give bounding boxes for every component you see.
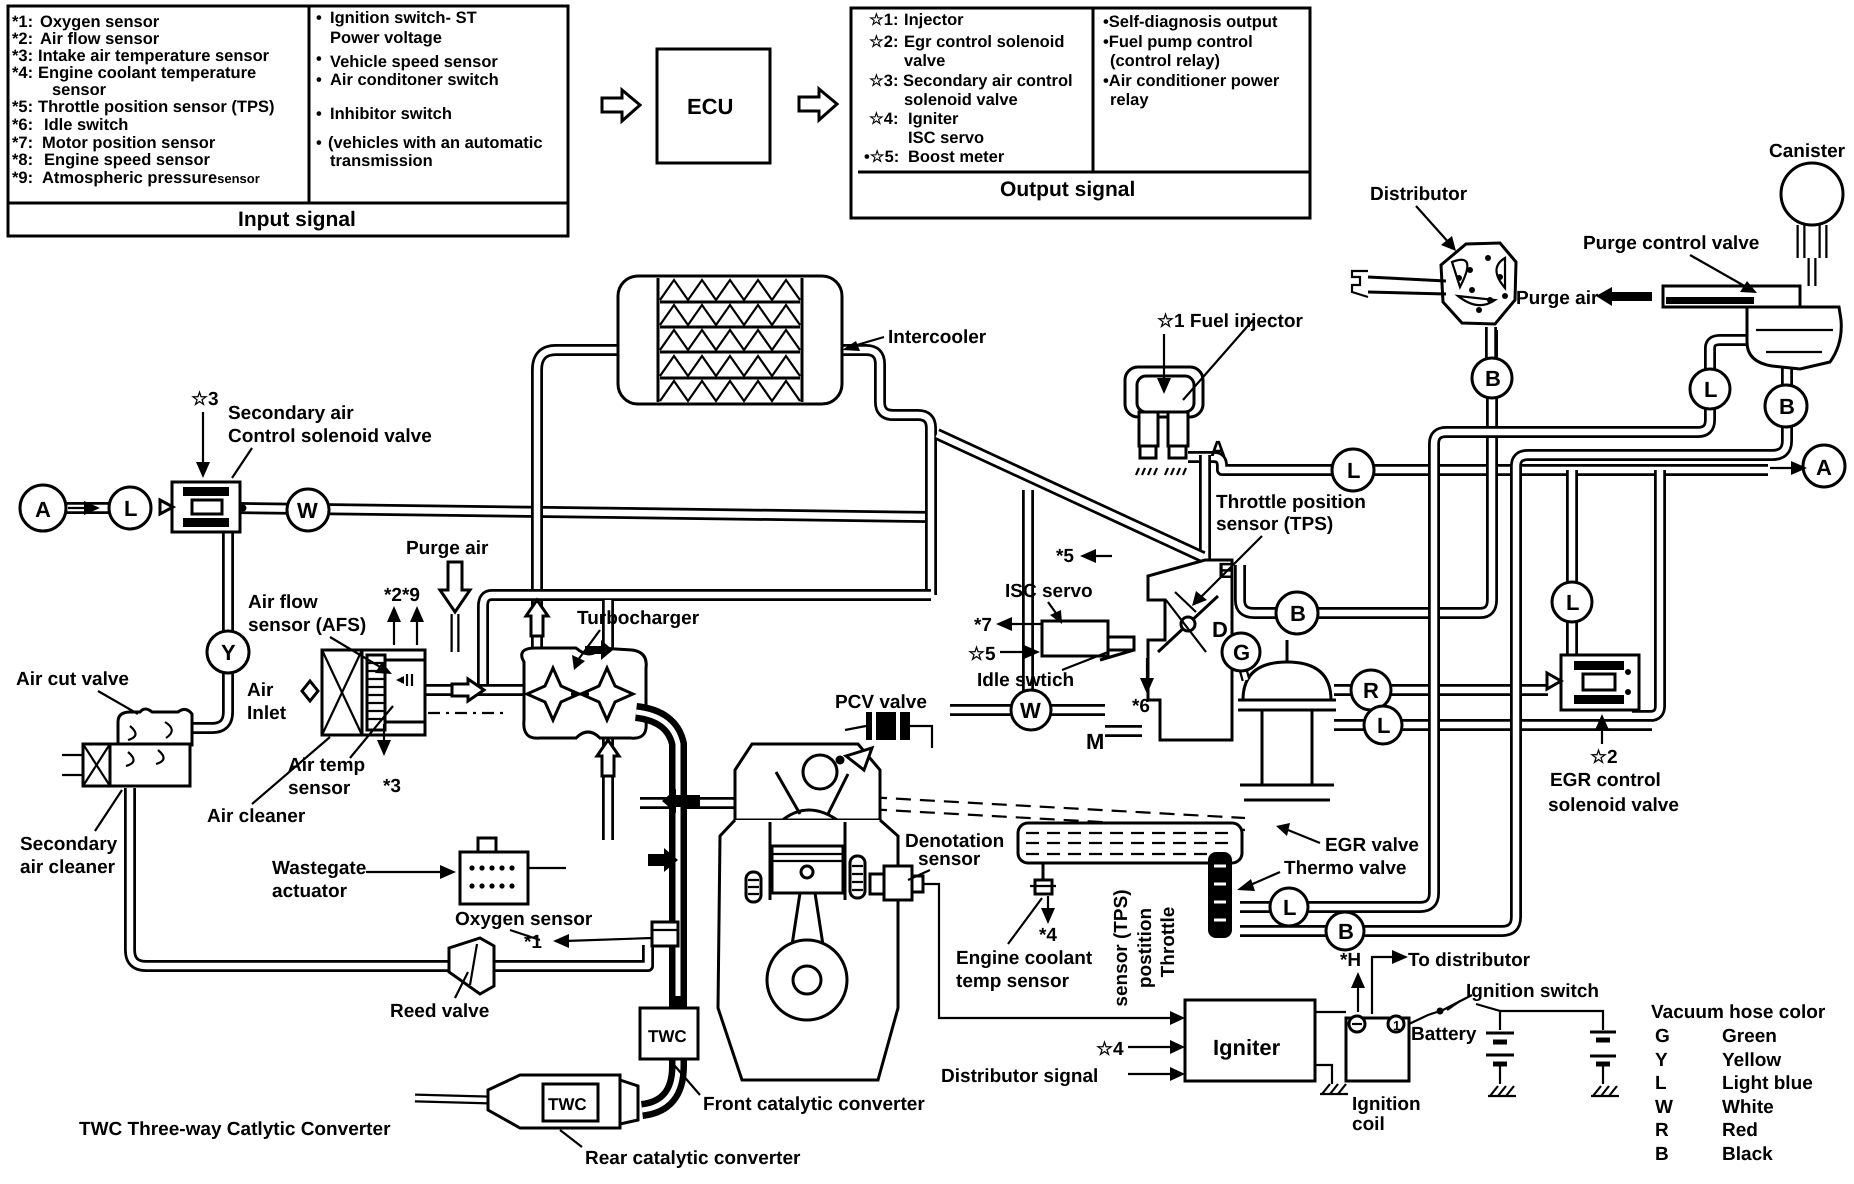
- block arrow out of ECU: [799, 89, 837, 120]
- label fuel injector: [1157, 311, 1303, 400]
- secondary air control solenoid valve component: [160, 482, 247, 532]
- H arrow up: [1357, 982, 1359, 1012]
- svg-text:M: M: [1086, 729, 1104, 754]
- node W left: [287, 489, 329, 531]
- label ISC servo: [1005, 581, 1093, 624]
- purge air hollow down arrow: [440, 562, 470, 612]
- svg-text:Air flow: Air flow: [248, 592, 318, 613]
- svg-text:Throttle position: Throttle position: [1216, 492, 1366, 513]
- turbo compressor wheel: [527, 668, 579, 720]
- wire to right ground stack: [1500, 1011, 1603, 1030]
- label *7 isc: [974, 615, 1042, 636]
- node A left: [20, 485, 66, 531]
- wire Y-line valve down to air cut valve: [192, 532, 228, 728]
- svg-text:Distributor signal: Distributor signal: [941, 1066, 1098, 1087]
- label rear catalytic converter: [560, 1130, 801, 1169]
- svg-text:1: 1: [1393, 1018, 1400, 1033]
- svg-text:*2*9: *2*9: [384, 585, 420, 606]
- svg-text:Turbocharger: Turbocharger: [577, 608, 700, 629]
- svg-text:☆5: ☆5: [968, 644, 996, 665]
- vacuum hose color legend: [1651, 1002, 1826, 1165]
- wire turbo vertical to exhaust x608: [602, 600, 614, 840]
- wire denotation sensor to igniter input: [922, 884, 1174, 1018]
- svg-text:Purge air: Purge air: [406, 538, 489, 559]
- wire intake runner to head: [640, 797, 737, 809]
- svg-text:sensor: sensor: [52, 81, 107, 99]
- svg-text:*7: *7: [974, 615, 992, 636]
- ground right stack: [1591, 1086, 1619, 1096]
- label intercooler: [842, 327, 987, 351]
- svg-text:Inlet: Inlet: [247, 703, 287, 724]
- label *2*9 with arrows: [384, 585, 424, 645]
- svg-text:☆4: ☆4: [1096, 1039, 1124, 1060]
- wire L tee down to EGR control solenoid: [1566, 470, 1578, 657]
- ignition switch and battery wire: [1409, 995, 1500, 1030]
- svg-text:L: L: [1283, 895, 1296, 920]
- ground battery: [1488, 1086, 1516, 1096]
- wire intercooler left pipe to turbocharger: [537, 350, 618, 662]
- svg-text:Secondary: Secondary: [20, 834, 118, 855]
- AFS outlet hollow arrow: [452, 679, 484, 701]
- wire distributor down to B circle: [1485, 327, 1497, 360]
- svg-text:To distributor: To distributor: [1408, 950, 1531, 971]
- EGR valve: [1238, 640, 1336, 800]
- svg-text:*3:Intake air temperature sens: *3:Intake air temperature sensor: [12, 47, 270, 65]
- label star5 isc: [968, 644, 1040, 665]
- svg-text:air cleaner: air cleaner: [20, 857, 116, 878]
- canister: [1781, 163, 1843, 225]
- node Y: [207, 631, 249, 673]
- svg-text:*5: *5: [1056, 546, 1074, 567]
- svg-text:*1: *1: [524, 932, 542, 953]
- svg-text:solenoid valve: solenoid valve: [904, 91, 1018, 109]
- svg-text:L: L: [1704, 377, 1717, 402]
- svg-text:valve: valve: [904, 52, 945, 70]
- svg-text:Rear catalytic converter: Rear catalytic converter: [585, 1148, 801, 1169]
- svg-text:Distributor: Distributor: [1370, 184, 1468, 205]
- svg-text:Engine coolant: Engine coolant: [956, 948, 1093, 969]
- svg-text:coil: coil: [1352, 1114, 1385, 1135]
- wire secondary air cleaner to reed valve bottom run: [130, 788, 648, 966]
- svg-text:(control relay): (control relay): [1110, 52, 1220, 70]
- svg-text:Igniter: Igniter: [1213, 1035, 1281, 1060]
- arrow into A right: [1770, 461, 1807, 475]
- svg-text:ISC servo: ISC servo: [1005, 581, 1093, 602]
- svg-text:L: L: [1566, 590, 1579, 615]
- svg-text:sensor: sensor: [918, 849, 981, 870]
- svg-text:sensor: sensor: [288, 778, 351, 799]
- svg-text:postition: postition: [1135, 908, 1156, 988]
- input signal list left column: [12, 13, 356, 231]
- label air temp sensor *3: [288, 706, 401, 799]
- svg-text:L: L: [1377, 713, 1390, 738]
- turbo hollow up arrow in left pipe: [526, 600, 548, 636]
- svg-text:solenoid valve: solenoid valve: [1548, 795, 1679, 816]
- svg-text:Power voltage: Power voltage: [330, 29, 442, 47]
- svg-text:PCV valve: PCV valve: [835, 692, 927, 713]
- svg-text:TWC Three-way Catlytic Convert: TWC Three-way Catlytic Converter: [79, 1119, 391, 1140]
- svg-text:Ignition: Ignition: [1352, 1094, 1421, 1115]
- igniter ground wire: [1315, 1065, 1332, 1084]
- node L on A-line: [1332, 449, 1374, 491]
- svg-text:W: W: [1020, 698, 1041, 723]
- label H and to distributor: [1340, 950, 1531, 971]
- fuel injector assembly: [1125, 367, 1203, 475]
- label thermo valve: [1237, 858, 1407, 891]
- svg-text:TWC: TWC: [648, 1027, 687, 1046]
- svg-text:*H: *H: [1340, 950, 1361, 971]
- svg-text:*6: *6: [1132, 696, 1150, 717]
- wire injector A-port line east through L to arrow A: [1188, 457, 1768, 470]
- svg-text:Intercooler: Intercooler: [888, 327, 987, 348]
- svg-text:Thermo valve: Thermo valve: [1284, 858, 1407, 879]
- intercooler: [618, 276, 842, 404]
- output signal list left column: [864, 11, 1135, 201]
- wire purge air down pipe into AFS: [451, 614, 460, 652]
- svg-text:Purge air: Purge air: [1516, 288, 1599, 309]
- svg-text:•: •: [316, 50, 322, 68]
- purge control valve: [1663, 286, 1841, 369]
- label wastegate actuator: [272, 858, 456, 902]
- svg-text:sensor (AFS): sensor (AFS): [248, 615, 366, 636]
- wire intercooler right pipe slanting to throttle body: [842, 350, 931, 595]
- turbo turbine wheel: [581, 668, 633, 720]
- wire G stub to EGR dome: [1241, 662, 1246, 680]
- ignition coil: [1346, 1016, 1409, 1081]
- ISC servo box: [1042, 621, 1108, 656]
- svg-text:A: A: [1816, 455, 1832, 480]
- svg-text:G: G: [1233, 640, 1250, 665]
- svg-text:Vacuum hose color: Vacuum hose color: [1651, 1002, 1826, 1023]
- svg-text:D: D: [1212, 617, 1228, 642]
- svg-text:A: A: [35, 497, 51, 522]
- exhaust flow arrows: [662, 789, 700, 813]
- thermo valve: [1208, 852, 1232, 938]
- svg-text:Air cleaner: Air cleaner: [207, 806, 306, 827]
- svg-text:B: B: [1779, 394, 1795, 419]
- output signal box frame: [851, 8, 1310, 218]
- wire igniter input arrows: [1170, 1011, 1185, 1025]
- svg-text:B: B: [1485, 366, 1501, 391]
- svg-text:• Ignition switch- ST: • Ignition switch- ST: [316, 9, 477, 27]
- svg-text:Y: Y: [221, 640, 236, 665]
- label turbocharger: [572, 608, 700, 670]
- ground igniter: [1320, 1084, 1348, 1094]
- PCV valve: [845, 712, 932, 748]
- reed valve: [449, 938, 494, 994]
- air cleaner with X element: [322, 650, 425, 735]
- svg-text:transmission: transmission: [330, 152, 433, 170]
- svg-text:Air cut valve: Air cut valve: [16, 669, 129, 690]
- igniter box: [1185, 1000, 1315, 1081]
- svg-text:Front catalytic converter: Front catalytic converter: [703, 1094, 925, 1115]
- svg-text:*4:Engine coolant temperature: *4:Engine coolant temperature: [12, 64, 256, 82]
- wire canister down pipes: [1801, 225, 1823, 286]
- label *5 isc: [1056, 546, 1112, 567]
- exhaust thick pipe from turbine down to front TWC: [636, 712, 678, 1110]
- label purge control valve: [1583, 233, 1759, 293]
- wire D-port black hose to distributor: [1240, 330, 1492, 613]
- svg-text:•Air conditioner power: •Air conditioner power: [1103, 72, 1280, 90]
- svg-text:EGR control: EGR control: [1550, 770, 1661, 791]
- svg-text:actuator: actuator: [272, 881, 348, 902]
- svg-text:Air: Air: [247, 680, 274, 701]
- node B purge: [1765, 385, 1807, 427]
- node R: [1351, 670, 1391, 710]
- node L thermo: [1270, 888, 1308, 926]
- wire M stub on throttle: [1105, 725, 1142, 737]
- svg-text:Wastegate: Wastegate: [272, 858, 366, 879]
- wire W-line from A through valve and W to plenum: [66, 508, 931, 517]
- wire E-feed vertical from A corner to throttle top: [1199, 455, 1211, 560]
- svg-text:L: L: [124, 496, 137, 521]
- svg-text:•☆5:Boost meter: •☆5:Boost meter: [864, 148, 1005, 166]
- engine cylinder head: [735, 744, 880, 822]
- distributor: [1352, 243, 1516, 324]
- wire EGR valve R-line to solenoid: [1334, 684, 1548, 696]
- right battery cells: [1590, 1032, 1616, 1084]
- label ignition switch: [1447, 981, 1599, 1010]
- node A right: [1803, 445, 1845, 487]
- svg-text:• Air conditoner switch: • Air conditoner switch: [316, 71, 499, 89]
- air cut valve: [118, 709, 192, 745]
- label ignition coil: [1352, 1094, 1421, 1135]
- svg-text:TWC: TWC: [548, 1095, 587, 1114]
- label reed valve: [390, 972, 489, 1022]
- svg-text:sensor (TPS): sensor (TPS): [1111, 889, 1132, 1006]
- svg-text:☆3: ☆3: [191, 389, 219, 410]
- svg-text:• Inhibitor switch: • Inhibitor switch: [316, 105, 452, 123]
- node L purge: [1690, 369, 1730, 409]
- svg-text:Battery: Battery: [1411, 1024, 1477, 1045]
- node B on D-line: [1276, 592, 1318, 634]
- engine coolant temp sensor: [1030, 863, 1056, 894]
- label EGR valve: [1276, 823, 1419, 856]
- node W mid: [1011, 690, 1051, 730]
- dashed coolant passage rect: [1018, 823, 1242, 863]
- wire rear converter inlet pipe: [415, 1098, 490, 1100]
- label star3: [191, 389, 219, 478]
- wire EGR valve L-line east: [1334, 719, 1652, 731]
- svg-text:W: W: [297, 498, 318, 523]
- wire plenum vertical and bottom edge to AFS outlet: [483, 595, 931, 687]
- turbocharger housings: [522, 648, 647, 738]
- battery: [1486, 1033, 1514, 1084]
- front catalytic converter TWC box: [640, 1008, 698, 1059]
- svg-text:temp sensor: temp sensor: [956, 971, 1070, 992]
- svg-text:relay: relay: [1110, 91, 1149, 109]
- svg-text:R: R: [1363, 678, 1379, 703]
- svg-text:ISC servo: ISC servo: [908, 129, 984, 147]
- block arrow into ECU: [602, 90, 640, 121]
- svg-text:Air temp: Air temp: [288, 755, 365, 776]
- svg-text:Canister: Canister: [1769, 141, 1846, 162]
- label *6: [1132, 658, 1154, 717]
- label EGR control solenoid valve: [1548, 714, 1679, 816]
- rear catalytic converter: [488, 1075, 638, 1128]
- node B distributor: [1472, 358, 1512, 398]
- secondary air cleaner: [62, 744, 190, 786]
- svg-text:Vehicle speed sensor: Vehicle speed sensor: [330, 53, 498, 71]
- svg-text:☆2:Egr control solenoid: ☆2:Egr control solenoid: [869, 33, 1064, 51]
- svg-text:Secondary air: Secondary air: [228, 403, 354, 424]
- svg-text:Control solenoid valve: Control solenoid valve: [228, 426, 432, 447]
- svg-text:•Self-diagnosis output: •Self-diagnosis output: [1103, 13, 1278, 31]
- label denotation sensor: [905, 831, 1004, 880]
- svg-text:*5:Throttle position sensor (T: *5:Throttle position sensor (TPS): [12, 98, 275, 116]
- EGR control solenoid valve: [1547, 655, 1639, 710]
- svg-text:☆1 Fuel injector: ☆1 Fuel injector: [1157, 311, 1303, 332]
- label oxygen sensor: [455, 909, 652, 953]
- air inlet diamond: [302, 681, 318, 701]
- wire thermo valve L-line up to H1 and purge valve L: [1240, 340, 1750, 907]
- throttle body: [1148, 560, 1232, 740]
- node L solenoid: [1552, 582, 1592, 622]
- wire V3 tee down to EGR control solenoid right: [1632, 470, 1660, 716]
- svg-text:A: A: [1210, 436, 1226, 461]
- svg-text:Idle swtich: Idle swtich: [977, 670, 1074, 691]
- wire ISC left vertical and W-circle run: [950, 490, 1105, 710]
- node L left: [109, 487, 151, 529]
- wastegate actuator: [460, 838, 566, 904]
- label secondary air cleaner: [20, 790, 122, 878]
- label air inlet: [247, 680, 287, 724]
- engine block and piston: [718, 820, 898, 1080]
- label distributor: [1370, 184, 1468, 251]
- svg-text:*7:Motor position sensor: *7:Motor position sensor: [12, 134, 216, 152]
- svg-text:*9:Atmospheric pressuresensor: *9:Atmospheric pressuresensor: [12, 169, 260, 187]
- svg-text:•Fuel pump control: •Fuel pump control: [1103, 33, 1253, 51]
- svg-text:Throttle: Throttle: [1158, 907, 1179, 978]
- svg-text:L: L: [1347, 458, 1360, 483]
- svg-text:Purge control valve: Purge control valve: [1583, 233, 1759, 254]
- svg-text:Ignition switch: Ignition switch: [1466, 981, 1599, 1002]
- svg-text:Input signal: Input signal: [238, 208, 356, 231]
- oxygen sensor on exhaust: [652, 922, 678, 946]
- idle switch contact: [1100, 637, 1134, 660]
- label idle switch: [977, 652, 1108, 691]
- svg-text:Oxygen sensor: Oxygen sensor: [455, 909, 593, 930]
- svg-text:*3: *3: [383, 776, 401, 797]
- label throttle position sensor rotated: [1111, 889, 1179, 1006]
- svg-text:☆1:Injector: ☆1:Injector: [869, 11, 964, 29]
- svg-text:☆2: ☆2: [1590, 747, 1618, 768]
- wire AFS inlet dash-dot: [428, 712, 505, 714]
- label throttle position sensor top: [1192, 492, 1366, 606]
- denotation sensor: [870, 866, 923, 900]
- wire AFS outlet to turbo inlet: [425, 684, 530, 696]
- svg-text:Output signal: Output signal: [1000, 178, 1135, 201]
- purge air fat arrow: [1596, 287, 1652, 306]
- svg-text:E: E: [1218, 558, 1233, 583]
- label air flow sensor: [248, 592, 392, 674]
- svg-text:• (vehicles with an automatic: • (vehicles with an automatic: [316, 134, 543, 152]
- svg-text:sensor (TPS): sensor (TPS): [1216, 514, 1333, 535]
- label secondary air control solenoid valve: [228, 403, 432, 478]
- node B thermo: [1326, 912, 1364, 950]
- label front catalytic converter: [668, 1058, 925, 1115]
- svg-text:B: B: [1290, 601, 1306, 626]
- label air cut valve: [16, 669, 138, 714]
- wire charge pipe slant to throttle: [937, 434, 1203, 557]
- svg-text:EGR valve: EGR valve: [1325, 835, 1419, 856]
- wire manifold dashed lines: [848, 796, 1245, 830]
- wire thermo valve B-line up to B and purge valve: [1240, 366, 1787, 931]
- input signal box frame: [8, 6, 568, 236]
- label PCV valve: [835, 692, 927, 713]
- node L EGR: [1364, 706, 1402, 744]
- node G: [1222, 633, 1260, 671]
- label engine coolant temp sensor: [956, 896, 1093, 992]
- label air cleaner: [207, 737, 330, 827]
- wire coil to distributor with H: [1372, 957, 1394, 1014]
- svg-text:☆4:Igniter: ☆4:Igniter: [869, 110, 959, 128]
- arrow out of A left: [68, 501, 100, 515]
- input signal list right column: [316, 9, 543, 170]
- svg-text:*6:Idle switch: *6:Idle switch: [12, 116, 128, 134]
- wire igniter to coil: [1315, 1011, 1346, 1013]
- svg-text:Reed valve: Reed valve: [390, 1001, 489, 1022]
- svg-text:*4: *4: [1039, 925, 1057, 946]
- output signal list right column: [1103, 13, 1280, 109]
- svg-text:ECU: ECU: [687, 94, 733, 119]
- ECU box: [657, 49, 770, 163]
- svg-text:B: B: [1338, 919, 1354, 944]
